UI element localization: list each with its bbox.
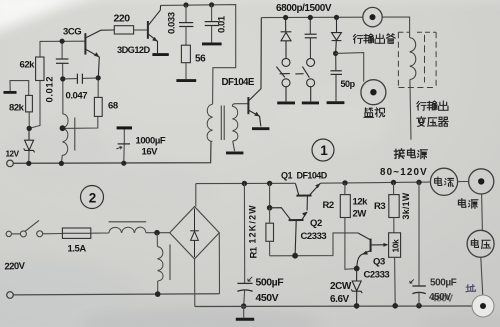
wire 82k bottom [28, 112, 30, 128]
node R2 on DC rail [342, 180, 347, 185]
svg-text:3DG12D: 3DG12D [117, 45, 150, 55]
node Q2 collector [267, 205, 273, 211]
wire 0.012 bottom stem [62, 64, 64, 79]
wire voltage to earth terminal [481, 257, 483, 296]
ground DF104E emitter [252, 127, 269, 130]
node output cap on ground rail [416, 303, 422, 309]
svg-text:500µF: 500µF [256, 277, 285, 289]
wire 1000uF stems [123, 129, 125, 143]
zener diode 2CW 6.6V [351, 269, 362, 306]
svg-text:Q1: Q1 [281, 171, 293, 181]
wire 6800p rail [261, 16, 363, 18]
svg-text:1.5A: 1.5A [68, 244, 87, 255]
capacitor 500uF 450V (output) [418, 182, 420, 285]
wire dc rail right of Q1 [320, 182, 429, 183]
ground T2 secondary [226, 151, 243, 154]
svg-text:R1: R1 [249, 246, 260, 258]
wire 82k ground arm [10, 81, 29, 96]
svg-text:12V: 12V [6, 150, 20, 159]
terminal power (dianyuan) [469, 169, 494, 194]
zener diode 12V [24, 128, 35, 152]
transistor Q 3DG12D [148, 5, 161, 53]
terminal 220V lower [7, 292, 14, 299]
node circled 2 [81, 186, 104, 209]
svg-text:82k: 82k [9, 103, 25, 114]
transistor DF104E [248, 18, 261, 127]
ground 82k top bar [4, 91, 17, 94]
transformer flyback winding [410, 38, 416, 80]
autotransformer core [169, 245, 171, 281]
wire branch3 to monitor terminal [336, 53, 364, 82]
label jianshi (monitor) [364, 108, 385, 118]
wire 62k bottom jog to zener node [29, 81, 40, 129]
bridge rectifier [170, 207, 220, 259]
svg-text:1: 1 [320, 143, 328, 158]
wire tap to 68 bottom [63, 116, 98, 128]
svg-text:DF104E: DF104E [222, 77, 255, 88]
switch mains [6, 220, 43, 237]
svg-text:Q3: Q3 [373, 257, 385, 268]
svg-text:1000µF: 1000µF [136, 136, 166, 147]
svg-text:0.047: 0.047 [66, 91, 88, 102]
terminal earth (di) [472, 295, 494, 317]
meter current (dianliu) [430, 168, 457, 195]
wire bridge top to dc rail [195, 184, 197, 207]
diode inside bridge [190, 209, 199, 258]
node 3CG base junction [60, 39, 65, 44]
svg-text:220: 220 [114, 13, 131, 25]
wire rail to Q2 collector node [269, 183, 271, 207]
autotransformer winding [157, 233, 163, 295]
capacitor 500uF 450V [243, 184, 245, 284]
fuse 1.5A [62, 228, 90, 238]
wire choke to bridge [146, 232, 170, 234]
resistor 68 [94, 97, 102, 116]
wire power to voltage [481, 194, 484, 230]
diode branch1 (cathode up) [281, 18, 292, 60]
transistor Q1 DF104D [295, 183, 320, 210]
spark gap branch1 [276, 58, 290, 101]
transformer T1 primary winding (tapped) [62, 114, 68, 155]
svg-text:C2333: C2333 [301, 231, 327, 242]
resistor 56 [181, 45, 190, 63]
node 3CG emitter junction [60, 76, 65, 81]
meter voltage (dianya) [467, 230, 494, 257]
node ac return dot [155, 291, 161, 297]
node ground rail dot under cap [241, 303, 247, 309]
node filter cap on DC rail [242, 181, 247, 186]
svg-text:0.033: 0.033 [167, 12, 178, 34]
wire 0.047 right lead [83, 77, 98, 80]
wire T2 secondary bottom to ground [233, 141, 235, 151]
node zener on 12V rail [26, 161, 31, 166]
svg-text:50p: 50p [341, 79, 356, 89]
svg-text:0.012: 0.012 [45, 76, 56, 103]
node transformer tap junction [60, 125, 66, 131]
choke core line [109, 221, 147, 223]
node zener on ground rail [354, 303, 360, 309]
svg-text:80~120V: 80~120V [380, 167, 428, 178]
node Q2 base dot [292, 253, 298, 259]
ground branch2 [302, 101, 319, 104]
wire base node 3CG [40, 40, 85, 42]
svg-text:6.6V: 6.6V [330, 294, 350, 305]
terminal 12V input [7, 160, 14, 167]
capacitor 0.012 [56, 59, 69, 63]
svg-text:DF104D: DF104D [297, 171, 328, 181]
node output cap on DC rail [416, 180, 421, 185]
wire 68 top stem [97, 78, 99, 98]
transformer T2 primary winding [207, 104, 213, 141]
wire terminal to flyback [382, 17, 409, 38]
ground 0.01 [202, 42, 222, 45]
wire bridge right to ac return [218, 233, 220, 294]
node diode branch on 6800p rail [283, 15, 288, 20]
wire switch to fuse [43, 233, 63, 235]
svg-text:3CG: 3CG [63, 27, 81, 38]
svg-text:Q2: Q2 [310, 218, 322, 229]
node emitter resistor junction [96, 75, 101, 80]
transistor Q 3CG [85, 30, 114, 78]
wire flyback to power feed [410, 79, 411, 139]
node capacitor branch on 6800p rail [308, 15, 313, 20]
wire top rail [161, 5, 236, 104]
wire ground rail [195, 305, 474, 308]
node Q2 branch on DC rail [267, 181, 272, 186]
svg-text:2W: 2W [353, 209, 367, 220]
node branch3 dot [333, 51, 338, 56]
resistor R3 3k/1W [389, 195, 399, 218]
wire feedback bus [270, 233, 358, 256]
wire zener to rail [28, 151, 30, 164]
ground 3DG12D emitter [152, 53, 168, 56]
node top rail dot1 [183, 2, 188, 7]
wire T2 secondary top to base [232, 104, 247, 107]
label line output tube [353, 34, 395, 44]
wire osc transformer bottom to rail [60, 155, 63, 163]
transformer T2 core [221, 106, 224, 141]
resistor 62k [36, 57, 44, 81]
resistor 220 [114, 26, 133, 34]
wire emitter node down to osc transformer [62, 79, 64, 114]
wire 0.012 top stem [61, 41, 63, 58]
capacitor 0.033 [185, 5, 187, 22]
svg-text:R2: R2 [323, 200, 334, 211]
label di (earth) [466, 285, 475, 292]
node top rail dot2 [209, 2, 214, 7]
label dianyuan (power) [458, 199, 478, 209]
resistor 82k [26, 95, 33, 112]
svg-text:2: 2 [89, 190, 96, 205]
svg-text:68: 68 [108, 101, 118, 112]
svg-text:220V: 220V [4, 261, 26, 273]
node diode2 branch on 6800p rail [334, 15, 339, 20]
wire 12V rail [13, 142, 211, 164]
svg-text:62k: 62k [20, 60, 36, 71]
node junction choke/autotransformer [154, 230, 160, 236]
node divider junction [27, 126, 32, 131]
svg-text:12K/2W: 12K/2W [248, 204, 258, 243]
transistor Q2 C2333 [270, 208, 308, 256]
ground main [243, 306, 245, 317]
transformer flyback dashed box [398, 32, 436, 87]
ground branch1 [277, 101, 295, 104]
svg-text:12k: 12k [353, 197, 369, 208]
node 1000uF on 12V rail [121, 161, 126, 166]
wire 62k top stem [39, 41, 41, 57]
node R3 on DC rail [391, 180, 396, 185]
wire dc rail left of Q1 [196, 182, 296, 184]
capacitor 0.01 [211, 5, 213, 21]
ground 56 [176, 79, 196, 82]
node circled 1 [312, 139, 334, 161]
node zener top dot [354, 266, 360, 272]
svg-text:500µF: 500µF [430, 278, 457, 289]
transformer T1 core [74, 118, 76, 151]
label line output transformer [417, 101, 448, 127]
spark gap branch2 [295, 58, 314, 101]
wire ac return rail [13, 294, 219, 295]
capacitor 50p [330, 53, 342, 101]
svg-text:56: 56 [195, 54, 206, 65]
capacitor 0.047 [77, 74, 82, 84]
wire 0.047 left lead [63, 78, 77, 80]
svg-text:3k/1W: 3k/1W [401, 192, 411, 219]
svg-text:480V: 480V [431, 294, 453, 305]
wire 220 to base [134, 29, 148, 31]
svg-text:6800p/1500V: 6800p/1500V [276, 3, 332, 14]
resistor R1 12K/2W [266, 223, 274, 241]
svg-text:0.01: 0.01 [217, 15, 228, 33]
svg-text:C2333: C2333 [364, 270, 390, 281]
terminal line-output-tube [363, 7, 382, 26]
svg-text:R3: R3 [374, 201, 385, 212]
svg-text:10k: 10k [390, 239, 400, 253]
svg-text:16V: 16V [142, 147, 159, 158]
inductor choke [109, 227, 146, 233]
node pot on ground rail [392, 303, 398, 309]
wire meter to power terminal [458, 181, 469, 183]
diode branch3 (cathode down) [332, 17, 342, 53]
capacitor branch2 [305, 18, 317, 60]
terminal monitor (jianshi) [361, 80, 386, 105]
svg-text:450V: 450V [256, 292, 279, 304]
label connect power [394, 149, 427, 159]
capacitor 1000uF 16V [117, 126, 132, 129]
svg-text:2CW: 2CW [330, 281, 352, 292]
wire bridge bottom to ground rail [194, 259, 196, 307]
transistor Q3 C2333 [357, 233, 389, 269]
ground branch3 [327, 101, 345, 104]
transformer T2 secondary winding [232, 106, 238, 141]
wire fuse to choke [91, 232, 109, 234]
node transformer on 12V rail [59, 161, 64, 166]
potentiometer 10k [389, 233, 401, 257]
resistor R2 12k/2W [340, 195, 350, 218]
